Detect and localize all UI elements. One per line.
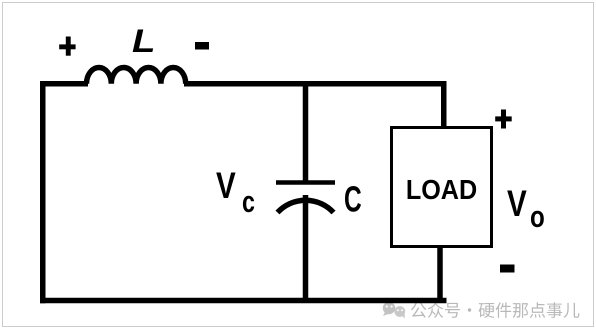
watermark wechat icon [383,302,405,319]
svg-text:C: C [344,179,362,220]
svg-text:LOAD: LOAD [406,174,477,206]
load block [392,128,492,247]
node label Vo [507,184,545,234]
wire top rail left segment [40,81,88,87]
svg-text:c: c [242,184,255,219]
polarity plus (inductor input) [59,37,75,56]
capacitor C curved plate [278,200,334,212]
wire load top branch [441,81,447,129]
node label Vc [216,166,255,219]
polarity plus (output) [495,110,512,129]
svg-text:L: L [132,23,155,60]
polarity minus (output) [500,265,515,273]
wire left vertical [40,81,46,303]
wire capacitor bottom branch [303,195,309,303]
watermark text 公众号·硬件那点事儿 [411,302,580,318]
inductor L [87,67,186,83]
svg-text:V: V [216,166,236,207]
capacitor C flat plate [276,180,335,185]
wire bottom rail [40,298,447,304]
polarity minus (inductor output) [195,42,209,50]
wire capacitor top branch [303,81,309,185]
svg-text:V: V [507,184,527,225]
wire load bottom branch [437,246,443,303]
svg-text:o: o [530,199,545,234]
wire top rail right segment [184,81,447,87]
